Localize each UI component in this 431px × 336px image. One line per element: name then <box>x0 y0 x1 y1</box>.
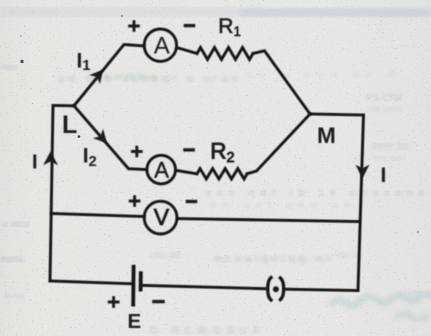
bleed-through band across very top <box>0 7 431 17</box>
wire bottom rail left (to battery) <box>50 281 133 284</box>
svg-text:A: A <box>154 33 170 60</box>
wire branch1 diagonal up from L <box>74 45 144 106</box>
svg-text:un ann: un ann <box>368 104 401 115</box>
bleed-through bottom row <box>150 325 260 336</box>
ammeter A1 circle <box>144 29 176 61</box>
plus battery <box>108 296 120 308</box>
battery long plate <box>131 267 135 305</box>
svg-text:nae: nae <box>0 62 18 73</box>
key plug dot <box>273 286 279 292</box>
ammeter A2 circle <box>147 155 176 184</box>
battery short plate <box>139 273 143 289</box>
svg-text:PS 1TM: PS 1TM <box>366 93 402 104</box>
wire branch1 ammeter to R1 <box>177 48 197 54</box>
bleed-through faint text band (teal, upper) <box>58 69 395 85</box>
wire bottom rail key to corner <box>287 289 359 290</box>
bleed-through grey row above battery line <box>152 249 359 265</box>
bleed-through left margin bits <box>0 62 29 302</box>
svg-text:n ne: n ne <box>4 291 25 302</box>
node M (junction of branches and right rail) <box>308 112 312 116</box>
svg-text:PPIY 30: PPIY 30 <box>372 142 409 153</box>
resistor R1 zigzag <box>197 48 253 60</box>
wire branch2 diagonal down from L <box>74 106 147 170</box>
svg-text:nu ne: nu ne <box>152 249 181 261</box>
plus V <box>129 195 141 207</box>
svg-text:E: E <box>128 310 142 333</box>
wire node L stub <box>53 104 74 107</box>
specks <box>20 60 23 63</box>
plus A1 <box>128 20 140 32</box>
arrow I down (right rail) <box>356 165 370 179</box>
arrow I up (left rail) <box>43 152 58 166</box>
wire branch2 ammeter to R2 <box>175 170 197 174</box>
wire bottom rail battery to key <box>141 285 265 288</box>
resistor R2 zigzag <box>197 169 247 179</box>
wire right rail <box>358 115 364 291</box>
svg-text:nn nu: nn nu <box>374 153 401 164</box>
minus battery <box>152 300 164 303</box>
plus A2 <box>131 146 143 158</box>
svg-text:u neu: u neu <box>2 219 29 230</box>
bleed-through long grey row behind voltmeter line <box>206 188 424 211</box>
wire voltmeter row left <box>51 214 145 217</box>
svg-text:euna: euna <box>0 254 24 265</box>
meter letters and labels <box>32 15 386 333</box>
wire node M to right rail <box>310 114 364 115</box>
key left parenthesis <box>268 278 271 300</box>
svg-text:A: A <box>154 157 169 182</box>
arrow I1 (on upper diagonal) <box>89 70 103 84</box>
bleed-through right margin grey text <box>366 93 409 164</box>
svg-text:L: L <box>62 111 77 139</box>
svg-text:V: V <box>154 204 170 230</box>
minus A2 <box>183 148 195 151</box>
plus/minus signs <box>108 20 198 308</box>
node L (junction of rails and branches) <box>72 104 76 108</box>
minus A1 <box>184 24 196 27</box>
key right parenthesis <box>280 278 283 300</box>
wire R2 to M diagonal <box>247 114 310 174</box>
minus V <box>186 200 198 203</box>
svg-text:nu n: nu n <box>336 249 359 261</box>
wire R1 to M diagonal <box>253 51 310 114</box>
wire voltmeter row right <box>177 219 358 222</box>
wire left rail <box>50 106 53 282</box>
arrow I2 (on lower diagonal) <box>93 129 107 143</box>
svg-text:M: M <box>317 123 336 148</box>
bleed teal handwriting bottom-right <box>330 293 431 320</box>
voltmeter V circle <box>144 201 177 234</box>
svg-text:I: I <box>381 164 387 187</box>
svg-text:I: I <box>32 152 38 174</box>
